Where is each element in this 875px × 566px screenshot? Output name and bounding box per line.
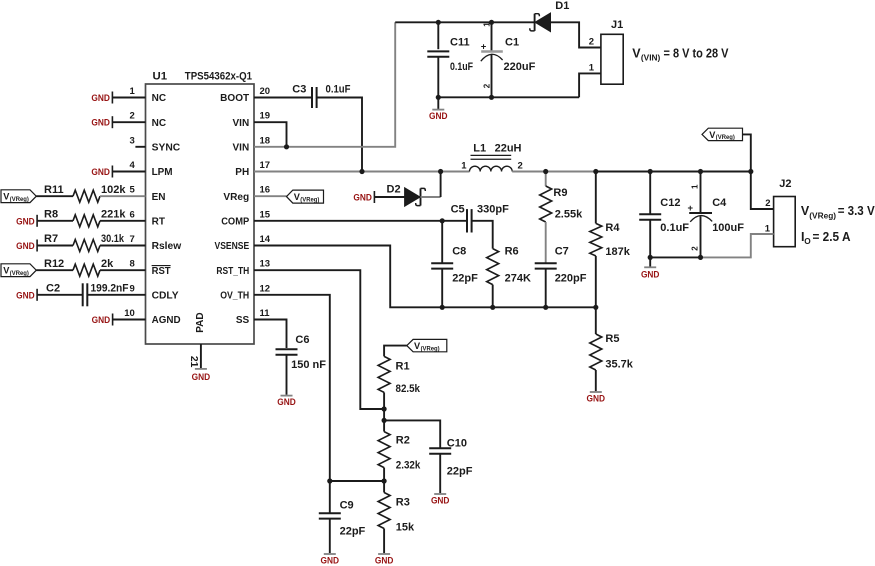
ground (pin 4) <box>91 166 112 178</box>
label D1 <box>555 0 569 12</box>
junction OV_TH/C9 <box>327 478 332 483</box>
wire pin 19 to pin 18 <box>254 122 287 147</box>
wire VIN rail to D1 <box>395 21 534 23</box>
svg-text:D2: D2 <box>387 183 401 195</box>
svg-text:11: 11 <box>260 308 271 319</box>
svg-text:15k: 15k <box>396 522 415 534</box>
junction D2/PH <box>438 169 443 174</box>
value 22pF (C9) <box>340 526 366 538</box>
ground (output) <box>641 257 660 279</box>
pin number 2 <box>130 111 135 122</box>
wire R11 to pin 5 <box>100 195 146 197</box>
label R4 <box>605 222 620 234</box>
wire OV_TH (pin 12) <box>254 295 330 481</box>
svg-text:= 2.5 A: = 2.5 A <box>813 230 851 244</box>
svg-text:C8: C8 <box>452 246 466 258</box>
label C10 <box>447 438 467 450</box>
label R9 <box>553 187 567 199</box>
label C12 <box>660 197 680 209</box>
pin number 2 (C4) <box>690 246 699 251</box>
value 199.2nF <box>91 282 129 294</box>
resistor R3 <box>378 481 390 553</box>
value 274K <box>505 273 531 285</box>
svg-text:Rslew: Rslew <box>152 241 182 252</box>
pin number 2 (J1) <box>589 37 594 48</box>
pin number 2 (L1) <box>518 160 523 171</box>
capacitor C11 <box>427 22 449 97</box>
svg-text:1: 1 <box>765 223 771 234</box>
svg-text:C5: C5 <box>451 204 465 216</box>
svg-text:2.55k: 2.55k <box>555 209 583 221</box>
svg-text:AGND: AGND <box>152 315 181 326</box>
wire R1 to flag <box>384 346 407 357</box>
svg-text:COMP: COMP <box>221 216 249 227</box>
pin name COMP (pin 15) <box>221 216 249 227</box>
svg-text:4: 4 <box>130 160 136 171</box>
junction R4/R5 node <box>593 305 598 310</box>
capacitor C7 <box>535 263 557 307</box>
wire GND to D2 <box>374 196 404 198</box>
ground (pin 10) <box>92 314 113 326</box>
svg-text:1: 1 <box>690 184 699 189</box>
svg-text:GND: GND <box>16 289 35 300</box>
svg-text:R3: R3 <box>396 497 410 509</box>
pin number 18 <box>260 135 271 146</box>
label R2 <box>396 435 410 447</box>
svg-text:(VReg): (VReg) <box>809 211 836 221</box>
svg-text:J2: J2 <box>779 178 791 190</box>
resistor R6 <box>487 249 499 285</box>
svg-text:22pF: 22pF <box>452 273 478 285</box>
svg-text:(VReg): (VReg) <box>716 134 735 141</box>
capacitor C9 <box>319 481 341 553</box>
wire pin 1 to GND <box>112 97 145 99</box>
svg-text:220uF: 220uF <box>504 61 536 73</box>
diode D2 (Schottky) <box>405 188 426 207</box>
svg-text:GND: GND <box>91 166 110 177</box>
value 330pF <box>477 204 509 216</box>
label R5 <box>605 333 619 345</box>
pin name VIN (pin 18) <box>233 142 250 153</box>
wire SS (pin 11) <box>254 320 287 349</box>
value 100uF <box>712 222 744 234</box>
svg-text:22uH: 22uH <box>495 143 522 155</box>
pin name BOOT (pin 20) <box>220 93 249 104</box>
capacitor C10 <box>429 448 451 493</box>
junction COMP/C8 <box>440 218 445 223</box>
svg-text:1: 1 <box>461 160 467 171</box>
svg-text:GND: GND <box>92 314 111 325</box>
svg-text:R7: R7 <box>44 233 58 245</box>
label C6 <box>295 334 309 346</box>
wire input GND rail <box>438 96 579 98</box>
svg-text:5: 5 <box>130 185 136 196</box>
connector J1 <box>601 34 623 84</box>
pin number 1 (J1) <box>589 63 595 74</box>
pin name AGND (pin 10) <box>152 315 181 326</box>
label R12 <box>44 258 64 270</box>
label C1 <box>505 37 519 49</box>
svg-text:LPM: LPM <box>152 167 173 178</box>
label TPS54362x-Q1 <box>185 71 253 83</box>
wire R12 to pin 8 <box>100 269 146 271</box>
svg-text:14: 14 <box>260 234 271 245</box>
note V(VReg) output <box>801 204 875 221</box>
resistor R5 <box>590 307 602 391</box>
junction C8 bottom <box>440 305 445 310</box>
svg-text:GND: GND <box>375 555 394 566</box>
svg-text:GND: GND <box>321 555 340 566</box>
svg-text:15: 15 <box>260 209 271 220</box>
svg-text:8: 8 <box>130 259 135 270</box>
ground (C6) <box>277 396 296 407</box>
value 220uF <box>504 61 536 73</box>
pin number 2 (J2) <box>765 198 770 209</box>
svg-text:GND: GND <box>16 240 35 251</box>
junction R6 bottom <box>490 305 495 310</box>
ground (D2) <box>353 191 374 203</box>
net flag V(VReg) at output <box>702 128 743 141</box>
pin number 1 (J2) <box>765 223 771 234</box>
inductor L1 <box>470 155 513 171</box>
wire RST_TH (pin 13) <box>254 270 384 409</box>
wire flag to R12 <box>36 269 73 271</box>
svg-text:L1: L1 <box>473 143 486 155</box>
label C3 <box>292 84 306 96</box>
net flag V(VReg) at R1 <box>407 339 447 352</box>
pin number 21 <box>188 356 199 368</box>
label C5 <box>451 204 465 216</box>
svg-text:C11: C11 <box>450 37 470 49</box>
wire output GND rail <box>650 256 700 258</box>
svg-text:199.2nF: 199.2nF <box>91 282 129 294</box>
junction C7 bottom <box>543 305 548 310</box>
capacitor C1 (polarized) <box>481 22 503 97</box>
capacitor C2 <box>83 283 88 306</box>
svg-text:= 3.3 V: = 3.3 V <box>838 204 875 218</box>
pin name PH (pin 17) <box>235 167 249 178</box>
wire D1 to J1 <box>551 22 601 47</box>
wire to C10 <box>384 420 440 448</box>
pin number 15 <box>260 209 271 220</box>
label C2 <box>46 282 60 294</box>
svg-text:22pF: 22pF <box>447 466 473 478</box>
wire pin 20 to C3 <box>254 97 312 99</box>
label U1 <box>153 71 168 83</box>
svg-text:21: 21 <box>188 356 199 368</box>
resistor R8 <box>73 215 100 227</box>
pin name CDLY (pin 9) <box>152 290 179 301</box>
ground (R7) <box>16 240 37 252</box>
label D2 <box>387 183 401 195</box>
pin name Rslew (pin 7) <box>152 241 182 252</box>
wire D2 to PH node <box>421 172 441 198</box>
ground (pin 1) <box>91 92 112 104</box>
junction C4 bottom <box>698 255 703 260</box>
junction C12 top <box>648 169 653 174</box>
resistor R2 <box>378 432 390 481</box>
svg-text:2: 2 <box>589 37 594 48</box>
wire pin 2 to GND <box>112 121 145 123</box>
svg-text:C1: C1 <box>505 37 519 49</box>
svg-text:(VIN): (VIN) <box>641 52 661 62</box>
svg-text:GND: GND <box>192 371 211 382</box>
pin number 14 <box>260 234 271 245</box>
svg-text:2: 2 <box>690 246 699 251</box>
svg-text:SS: SS <box>236 315 250 326</box>
wire R1 to R2 <box>383 409 385 432</box>
net flag V(VReg) at R11 <box>1 190 36 203</box>
resistor R1 <box>378 356 390 409</box>
pin name VIN (pin 19) <box>233 118 250 129</box>
svg-text:J1: J1 <box>611 19 623 31</box>
value 0.1uF (C12) <box>660 222 689 234</box>
svg-text:D1: D1 <box>555 0 569 12</box>
value 22pF (C10) <box>447 466 473 478</box>
pin name RST (pin 8) <box>152 266 171 277</box>
svg-text:GND: GND <box>277 396 296 407</box>
value 30.1k <box>101 233 125 245</box>
pin number 6 <box>130 209 135 220</box>
svg-text:C10: C10 <box>447 438 467 450</box>
svg-text:C3: C3 <box>292 84 306 96</box>
pin number 8 <box>130 259 135 270</box>
svg-text:10: 10 <box>124 308 135 319</box>
svg-text:16: 16 <box>260 185 271 196</box>
capacitor C6 <box>276 349 298 395</box>
ground (input) <box>429 97 448 121</box>
svg-text:GND: GND <box>91 92 110 103</box>
svg-text:0.1uF: 0.1uF <box>660 222 689 234</box>
svg-text:187k: 187k <box>605 246 630 258</box>
pin number 7 <box>130 234 135 245</box>
note V(VIN) range <box>632 47 729 63</box>
svg-text:20: 20 <box>260 86 271 97</box>
svg-text:22pF: 22pF <box>340 526 366 538</box>
svg-text:1: 1 <box>589 63 595 74</box>
label C4 <box>712 197 727 209</box>
svg-text:0.1uF: 0.1uF <box>450 61 473 73</box>
label R7 <box>44 233 58 245</box>
pin name RST_TH (pin 13) <box>216 266 249 277</box>
svg-text:2.32k: 2.32k <box>396 460 421 472</box>
junction C10 tap <box>382 418 387 423</box>
svg-text:82.5k: 82.5k <box>396 383 421 395</box>
svg-text:2k: 2k <box>101 258 114 270</box>
svg-text:C2: C2 <box>46 282 60 294</box>
svg-text:R6: R6 <box>505 246 519 258</box>
svg-text:6: 6 <box>130 209 135 220</box>
svg-text:R9: R9 <box>553 187 567 199</box>
junction VIN pins <box>284 144 289 149</box>
junction R1/RST_TH <box>382 406 387 411</box>
svg-text:R8: R8 <box>44 208 58 220</box>
value 2.32k <box>396 460 421 472</box>
wire C5 to R6 <box>472 221 493 249</box>
ground (pin 2) <box>91 116 112 128</box>
svg-text:R5: R5 <box>605 333 619 345</box>
junction R2/R3 <box>382 478 387 483</box>
pin name VSENSE (pin 14) <box>215 241 250 252</box>
value 102k <box>101 184 126 196</box>
label J1 <box>611 19 623 31</box>
label C7 <box>555 246 569 258</box>
junction C11 top <box>436 20 441 25</box>
svg-text:GND: GND <box>429 110 448 121</box>
wire J1 pin 1 to GND rail <box>579 73 601 97</box>
capacitor C5 <box>467 209 472 232</box>
net flag V(VReg) at R12 <box>1 264 36 277</box>
svg-text:RST_TH: RST_TH <box>216 266 249 277</box>
svg-text:TPS54362x-Q1: TPS54362x-Q1 <box>185 71 253 83</box>
svg-text:35.7k: 35.7k <box>605 359 633 371</box>
capacitor C3 <box>312 87 317 108</box>
pin name NC (pin 2) <box>152 118 166 129</box>
svg-text:GND: GND <box>431 494 450 505</box>
capacitor C8 <box>431 221 453 307</box>
junction R4 top <box>593 169 598 174</box>
svg-text:12: 12 <box>260 283 271 294</box>
wire flag to output node <box>743 134 751 171</box>
svg-text:RST: RST <box>152 266 171 277</box>
ground (C2) <box>16 289 37 301</box>
pin number 5 <box>130 185 136 196</box>
resistor R4 <box>590 172 602 308</box>
wire pin 10 to GND <box>113 319 146 321</box>
svg-text:9: 9 <box>130 283 135 294</box>
junction C1 bottom <box>489 95 494 100</box>
wire GND to R7 <box>37 245 73 247</box>
svg-text:= 8 V to 28 V: = 8 V to 28 V <box>664 47 730 61</box>
wire L1 to R4 node <box>512 171 596 173</box>
svg-text:C6: C6 <box>295 334 309 346</box>
pin number 4 <box>130 160 136 171</box>
label J2 <box>779 178 791 190</box>
svg-text:102k: 102k <box>101 184 126 196</box>
connector J2 <box>774 197 796 247</box>
junction C12 bottom <box>648 255 653 260</box>
svg-text:30.1k: 30.1k <box>101 233 125 245</box>
pin name SYNC (pin 3) <box>152 142 181 153</box>
svg-text:(VReg): (VReg) <box>421 345 440 352</box>
pin number 10 <box>124 308 135 319</box>
pin number 1 (L1) <box>461 160 467 171</box>
label R6 <box>505 246 519 258</box>
svg-text:221k: 221k <box>101 208 126 220</box>
svg-text:17: 17 <box>260 160 271 171</box>
svg-text:NC: NC <box>152 93 166 104</box>
wire C2 to pin 9 <box>87 294 145 296</box>
svg-text:330pF: 330pF <box>477 204 509 216</box>
svg-text:BOOT: BOOT <box>220 93 249 104</box>
label C11 <box>450 37 470 49</box>
svg-text:100uF: 100uF <box>712 222 744 234</box>
junction C1 top <box>489 20 494 25</box>
pin number 1 (C4) <box>690 184 699 189</box>
value 221k <box>101 208 126 220</box>
value 22pF (C8) <box>452 273 478 285</box>
ground (C9) <box>321 554 340 566</box>
svg-text:7: 7 <box>130 234 135 245</box>
svg-text:(VReg): (VReg) <box>10 196 29 203</box>
svg-text:C4: C4 <box>712 197 727 209</box>
label C8 <box>452 246 466 258</box>
note IO current <box>801 230 851 246</box>
pin name NC (pin 1) <box>152 93 166 104</box>
pin number 17 <box>260 160 271 171</box>
pin name LPM (pin 4) <box>152 167 173 178</box>
value 82.5k <box>396 383 421 395</box>
wire GND to C2 <box>37 294 83 296</box>
svg-text:2: 2 <box>518 160 523 171</box>
svg-text:VIN: VIN <box>233 142 250 153</box>
junction R9 top <box>543 169 548 174</box>
value 35.7k <box>605 359 633 371</box>
ground (R5) <box>587 392 606 403</box>
svg-text:+: + <box>688 203 694 214</box>
pin number 11 <box>260 308 271 319</box>
value 2k <box>101 258 114 270</box>
svg-text:0.1uF: 0.1uF <box>326 84 351 96</box>
value 150 nF <box>291 359 326 371</box>
svg-text:3: 3 <box>130 135 135 146</box>
value 220pF <box>555 273 587 285</box>
wire flag to R11 <box>36 195 73 197</box>
wire OV_TH to R2/R3 node <box>330 480 384 482</box>
label R8 <box>44 208 58 220</box>
svg-text:R12: R12 <box>44 258 64 270</box>
label C9 <box>340 500 354 512</box>
resistor R12 <box>73 264 100 276</box>
svg-text:VSENSE: VSENSE <box>215 241 250 252</box>
resistor R9 <box>540 172 552 264</box>
svg-text:VIN: VIN <box>233 118 250 129</box>
svg-text:1: 1 <box>130 86 136 97</box>
pin number 2 (C1) <box>482 83 491 88</box>
wire R8 to pin 6 <box>100 220 146 222</box>
svg-text:GND: GND <box>353 192 372 203</box>
svg-text:RT: RT <box>152 216 165 227</box>
value 15k <box>396 522 415 534</box>
label L1 <box>473 143 486 155</box>
pin number 9 <box>130 283 135 294</box>
svg-text:U1: U1 <box>153 71 168 83</box>
pin number 20 <box>260 86 271 97</box>
svg-text:18: 18 <box>260 135 271 146</box>
pin number 3 <box>130 135 135 146</box>
value 187k <box>605 246 630 258</box>
wire R6 to rail <box>492 285 494 308</box>
pin name OV_TH (pin 12) <box>220 290 249 301</box>
pin name VReg (pin 16) <box>223 192 249 203</box>
wire output rail <box>596 171 751 173</box>
wire C3 to PH node <box>317 98 362 172</box>
svg-text:19: 19 <box>260 111 271 122</box>
wire COMP (pin 15) <box>254 220 467 222</box>
ground (R8) <box>16 215 37 227</box>
svg-text:VReg: VReg <box>223 192 249 203</box>
pin number 1 <box>130 86 136 97</box>
junction C4 top <box>698 169 703 174</box>
pin name SS (pin 11) <box>236 315 250 326</box>
svg-text:2: 2 <box>765 198 770 209</box>
wire output to J2 pin 2 <box>751 172 774 210</box>
svg-text:SYNC: SYNC <box>152 142 181 153</box>
wire pin 16 stub <box>254 195 287 197</box>
svg-text:EN: EN <box>152 192 166 203</box>
svg-text:OV_TH: OV_TH <box>220 290 249 301</box>
svg-text:220pF: 220pF <box>555 273 587 285</box>
